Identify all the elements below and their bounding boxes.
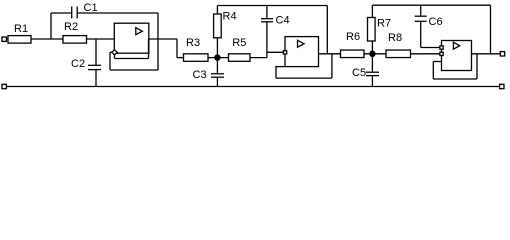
- svg-text:R3: R3: [186, 37, 200, 49]
- wire: [433, 61, 441, 63]
- wire: [77, 12, 158, 14]
- svg-text:R7: R7: [377, 18, 391, 30]
- wire: [51, 12, 72, 14]
- svg-text:C4: C4: [276, 15, 290, 27]
- capacitor C1: [71, 7, 73, 19]
- wire: [114, 53, 116, 58]
- resistor R8: [386, 50, 411, 58]
- wire: [364, 53, 386, 55]
- pin U2 noninverting: [283, 51, 286, 54]
- pin U3 inverting: [440, 46, 443, 49]
- svg-text:R2: R2: [64, 21, 78, 33]
- wire: [319, 53, 341, 55]
- capacitor C2: [95, 39, 97, 65]
- capacitor C5: [371, 54, 373, 72]
- wire: [208, 57, 229, 59]
- capacitor C6: [420, 5, 422, 16]
- wire: [31, 38, 114, 40]
- node C junction: [370, 51, 375, 56]
- svg-text:C3: C3: [193, 69, 207, 81]
- wire: [275, 66, 285, 68]
- wire: [472, 53, 501, 55]
- resistor R2: [63, 36, 87, 44]
- svg-text:C1: C1: [84, 2, 98, 14]
- svg-text:C2: C2: [71, 58, 85, 70]
- resistor R4: [216, 38, 218, 58]
- resistor R1: [8, 36, 31, 44]
- wire: [411, 53, 442, 55]
- input pin: [2, 37, 6, 41]
- resistor R5: [229, 54, 251, 62]
- output pin: [500, 52, 504, 56]
- node U1 inverting input: [112, 50, 117, 55]
- wire: [149, 38, 177, 40]
- svg-text:R5: R5: [232, 37, 246, 49]
- svg-text:R8: R8: [388, 32, 402, 44]
- node A: [50, 13, 52, 39]
- resistor R3: [184, 54, 209, 62]
- svg-text:R1: R1: [14, 23, 28, 35]
- resistor R7: [371, 41, 373, 54]
- wire: [372, 4, 490, 6]
- svg-text:R4: R4: [223, 11, 237, 23]
- wire: [217, 5, 327, 7]
- capacitor C4: [266, 6, 268, 19]
- wire: [6, 38, 8, 40]
- ground pin left: [2, 84, 6, 88]
- op-amp U2: [285, 37, 319, 67]
- ground pin right: [500, 84, 504, 88]
- wire: [275, 67, 277, 79]
- wire: [250, 57, 267, 59]
- wire: [110, 51, 112, 53]
- wire: [157, 13, 159, 70]
- ground rail: [6, 86, 500, 88]
- resistor R6: [341, 50, 365, 58]
- op-amp U1: [114, 23, 149, 53]
- wire: [421, 47, 442, 49]
- node B junction: [215, 55, 220, 60]
- pin U3 noninverting: [440, 52, 443, 55]
- capacitor C3: [216, 58, 218, 74]
- svg-text:C6: C6: [429, 16, 443, 28]
- svg-text:C5: C5: [352, 67, 366, 79]
- svg-text:R6: R6: [346, 31, 360, 43]
- op-amp U3: [442, 41, 472, 71]
